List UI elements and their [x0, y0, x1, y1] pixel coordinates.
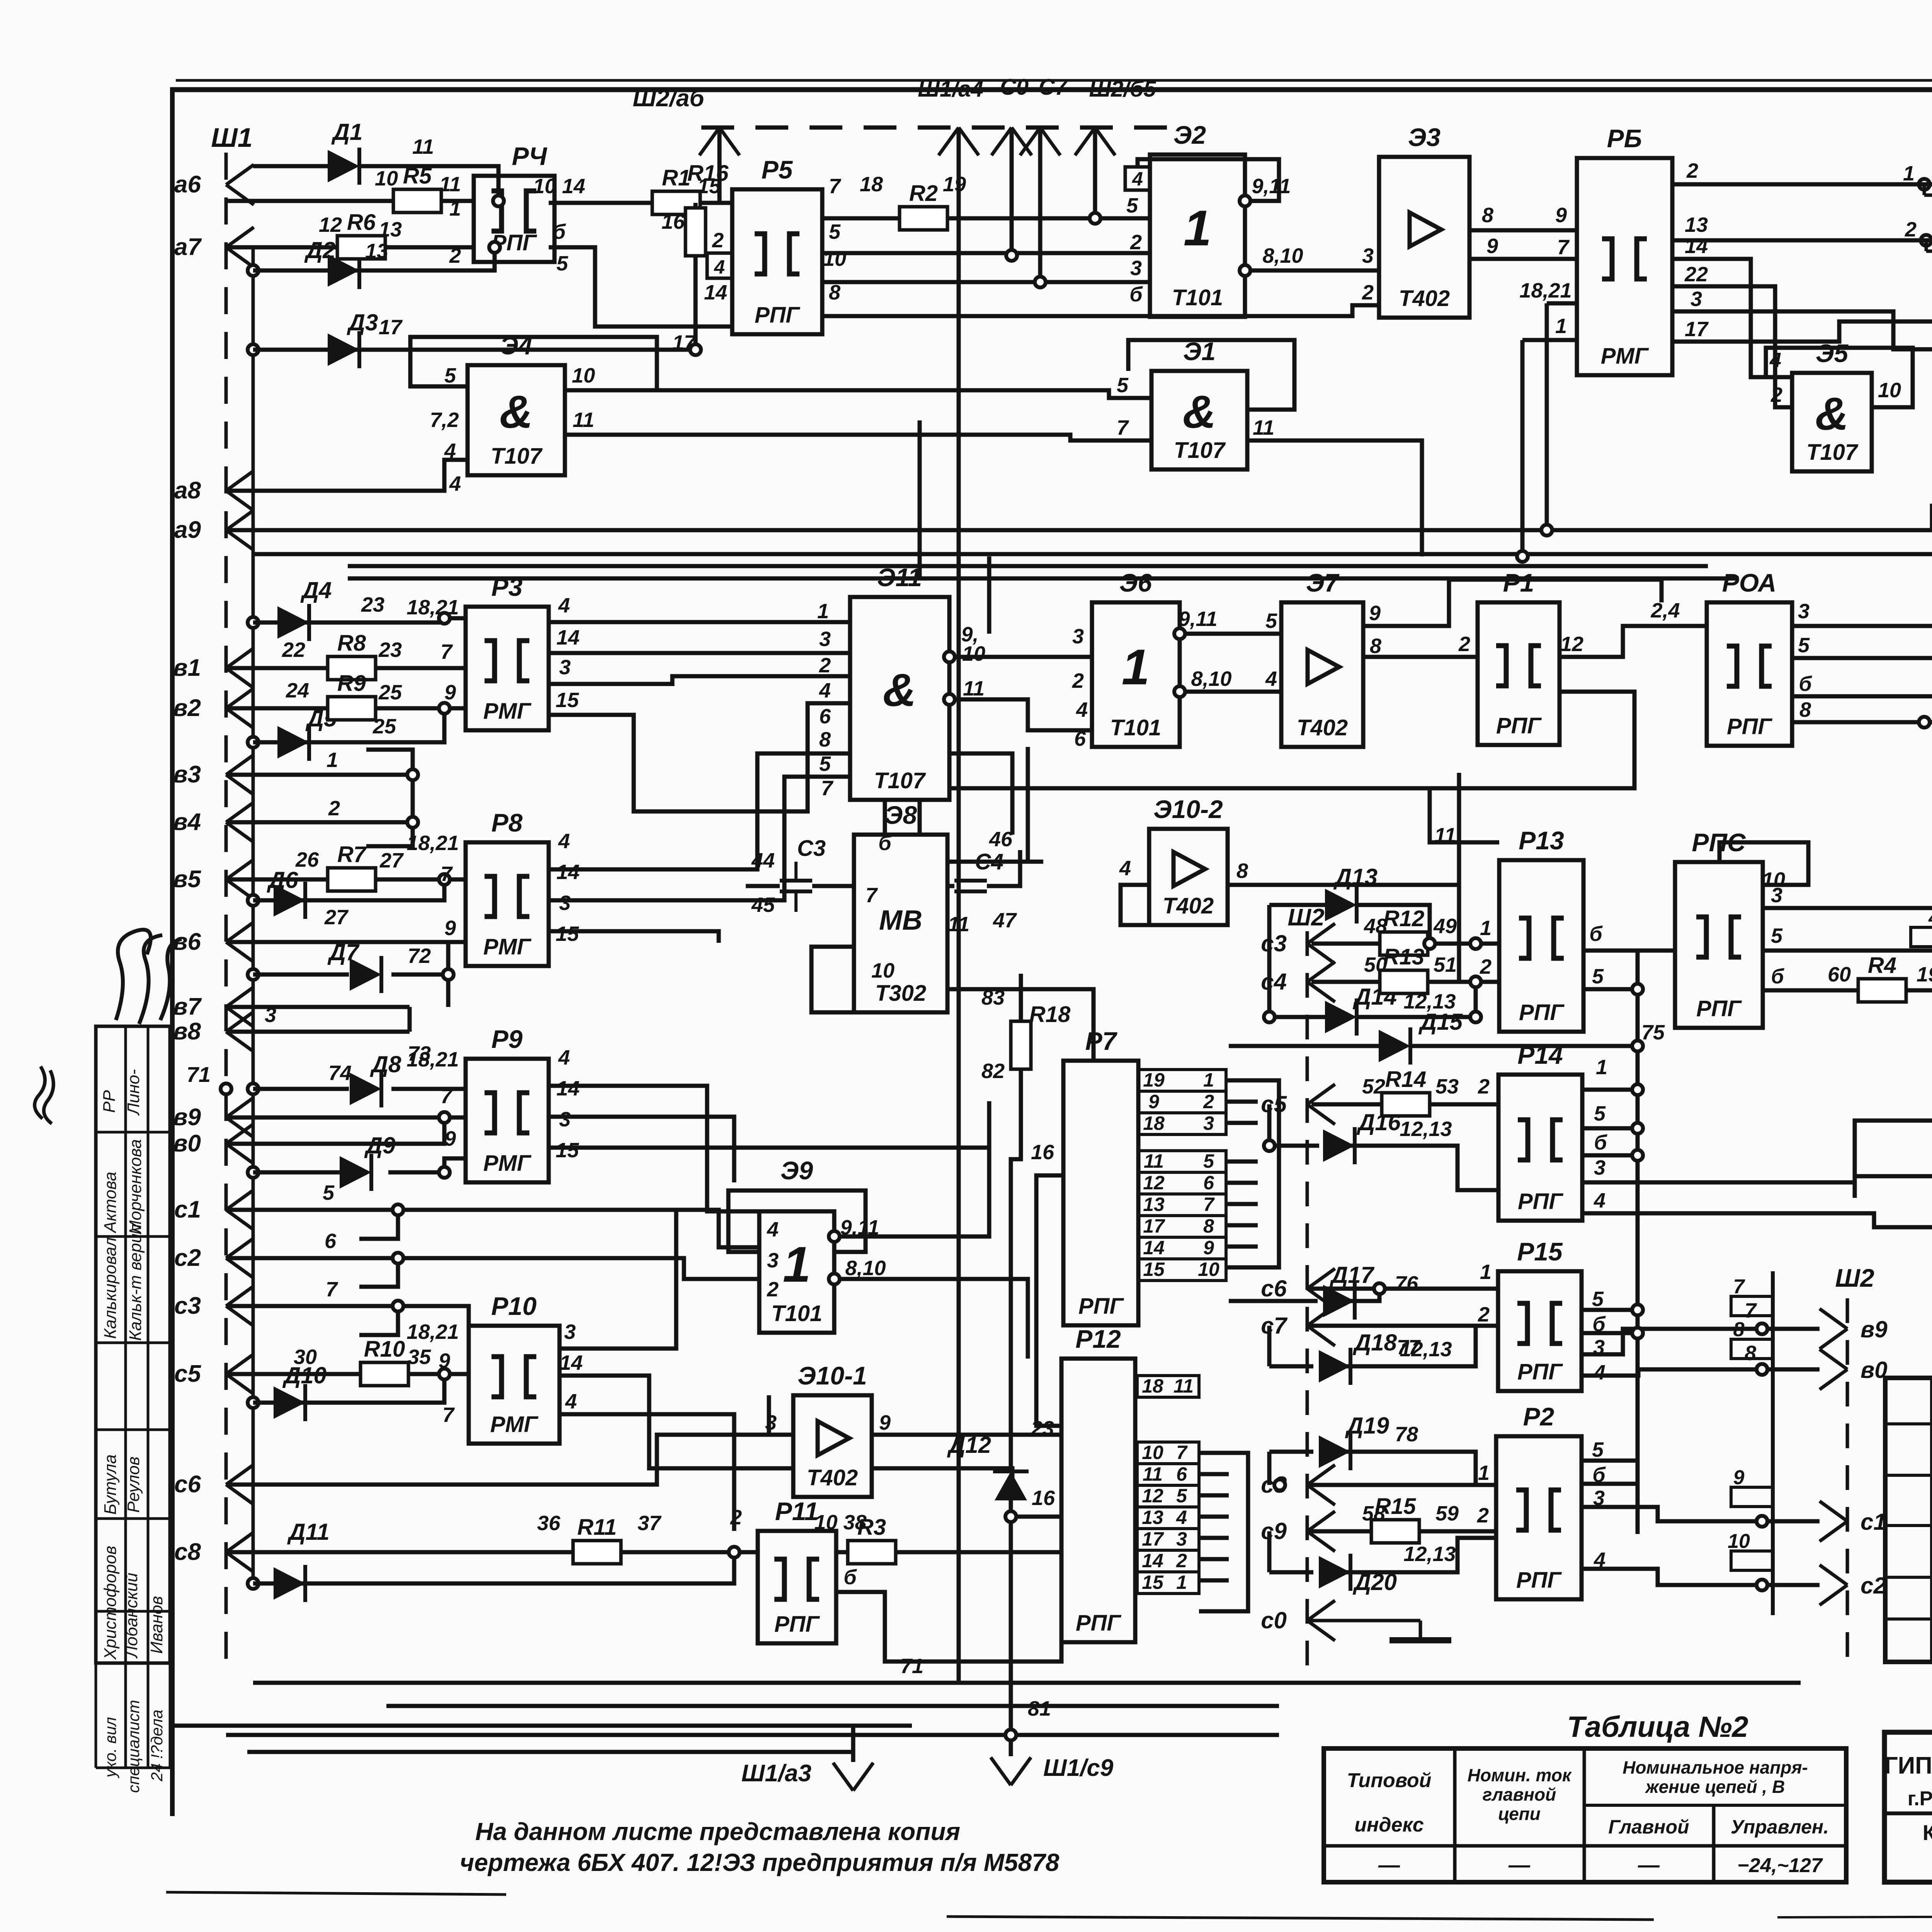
svg-text:58: 58: [1362, 1502, 1385, 1525]
svg-text:Главной: Главной: [1608, 1816, 1689, 1838]
svg-text:4: 4: [1265, 667, 1277, 690]
svg-text:1: 1: [449, 197, 461, 220]
svg-text:РПГ: РПГ: [1076, 1611, 1121, 1636]
svg-text:10: 10: [871, 959, 895, 982]
svg-text:РПГ: РПГ: [1516, 1568, 1562, 1593]
svg-text:R12: R12: [1383, 906, 1424, 931]
svg-text:б: б: [1594, 1131, 1607, 1154]
svg-text:12: 12: [1142, 1485, 1163, 1507]
svg-text:в7: в7: [173, 993, 202, 1020]
svg-text:1: 1: [1184, 200, 1211, 256]
svg-text:11: 11: [439, 173, 461, 196]
svg-text:—: —: [1378, 1852, 1400, 1877]
svg-text:1: 1: [1596, 1056, 1607, 1079]
svg-text:6: 6: [325, 1230, 337, 1253]
svg-text:Э10-1: Э10-1: [798, 1361, 867, 1390]
svg-text:Д4: Д4: [300, 577, 332, 603]
svg-text:77: 77: [1397, 1336, 1421, 1359]
svg-text:4: 4: [558, 594, 570, 617]
svg-text:&: &: [1183, 386, 1216, 438]
svg-text:Д2: Д2: [304, 237, 336, 263]
svg-text:7: 7: [1203, 1194, 1215, 1215]
svg-text:с0: с0: [1261, 1607, 1287, 1633]
svg-text:8,10: 8,10: [1262, 244, 1303, 267]
svg-text:7: 7: [821, 777, 834, 800]
svg-text:5: 5: [1592, 965, 1604, 988]
svg-text:3: 3: [1593, 1486, 1605, 1510]
svg-text:с6: с6: [174, 1471, 201, 1498]
svg-text:18,21: 18,21: [406, 832, 459, 855]
svg-text:48: 48: [1364, 915, 1387, 938]
svg-text:2: 2: [1905, 218, 1917, 241]
svg-text:Р13: Р13: [1519, 826, 1564, 855]
svg-text:Номинальное напря-: Номинальное напря-: [1622, 1757, 1808, 1777]
svg-text:2: 2: [1072, 669, 1084, 692]
svg-text:в4: в4: [173, 809, 201, 835]
svg-text:2: 2: [1478, 1303, 1490, 1326]
svg-text:Лино-: Лино-: [124, 1069, 143, 1116]
svg-text:специалист: специалист: [124, 1700, 143, 1793]
svg-text:РБ: РБ: [1607, 124, 1642, 153]
svg-text:74: 74: [328, 1061, 352, 1085]
svg-text:2: 2: [1203, 1091, 1214, 1112]
svg-text:13: 13: [1142, 1507, 1163, 1528]
svg-text:4: 4: [1132, 168, 1143, 190]
svg-text:5: 5: [1592, 1287, 1604, 1311]
svg-text:1: 1: [1555, 315, 1567, 338]
svg-text:с8: с8: [174, 1539, 201, 1565]
svg-text:1: 1: [1480, 917, 1492, 940]
svg-text:с7: с7: [1261, 1313, 1287, 1338]
svg-text:3: 3: [1072, 625, 1084, 648]
svg-text:3: 3: [1798, 600, 1810, 623]
svg-text:11: 11: [573, 408, 594, 432]
svg-text:10: 10: [1762, 868, 1785, 891]
svg-text:с3: с3: [1261, 930, 1287, 956]
svg-text:Э8: Э8: [884, 801, 917, 829]
svg-text:Д17: Д17: [1329, 1262, 1375, 1288]
svg-text:Ш2/аб: Ш2/аб: [633, 85, 705, 112]
svg-text:78: 78: [1395, 1423, 1418, 1446]
svg-text:б: б: [1771, 965, 1784, 988]
svg-text:11: 11: [1434, 824, 1456, 847]
svg-text:14: 14: [560, 1351, 583, 1374]
svg-text:с9: с9: [1261, 1518, 1287, 1544]
svg-text:Обознач.: Обознач.: [1930, 1396, 1932, 1419]
svg-text:13: 13: [365, 240, 388, 263]
svg-text:11: 11: [963, 677, 985, 700]
svg-text:в9: в9: [173, 1104, 201, 1131]
svg-text:18: 18: [1142, 1375, 1163, 1397]
svg-text:9,11: 9,11: [1252, 175, 1291, 198]
svg-text:РПГ: РПГ: [1518, 1189, 1563, 1214]
svg-text:5: 5: [819, 752, 831, 776]
svg-text:а6: а6: [174, 171, 201, 198]
svg-text:Т101: Т101: [771, 1301, 822, 1326]
svg-text:7: 7: [326, 1278, 338, 1301]
svg-text:15: 15: [556, 1139, 579, 1162]
svg-text:30: 30: [294, 1345, 317, 1369]
svg-text:2: 2: [328, 797, 340, 820]
svg-text:3: 3: [767, 1249, 779, 1272]
svg-text:с1: с1: [1861, 1509, 1886, 1535]
svg-text:19: 19: [943, 173, 966, 196]
svg-text:Христофоров: Христофоров: [101, 1546, 120, 1660]
svg-text:—: —: [1508, 1852, 1531, 1877]
svg-text:17: 17: [1142, 1528, 1164, 1550]
svg-text:25: 25: [372, 715, 396, 738]
svg-text:17: 17: [379, 316, 403, 339]
svg-text:Иванов: Иванов: [147, 1596, 166, 1654]
svg-text:Д8: Д8: [370, 1051, 401, 1077]
svg-text:в9: в9: [1861, 1316, 1888, 1342]
svg-text:R1: R1: [662, 165, 690, 190]
svg-text:2: 2: [819, 654, 831, 677]
svg-text:РПГ: РПГ: [774, 1612, 820, 1637]
svg-text:13: 13: [379, 218, 402, 241]
svg-text:2: 2: [1477, 1504, 1489, 1527]
svg-text:2: 2: [712, 229, 724, 252]
svg-text:3: 3: [1130, 257, 1142, 280]
svg-text:11: 11: [1143, 1463, 1163, 1485]
svg-text:&: &: [883, 664, 917, 716]
svg-text:Бутула: Бутула: [101, 1454, 120, 1515]
svg-text:2: 2: [1458, 633, 1470, 656]
svg-text:уко. вил: уко. вил: [101, 1717, 119, 1779]
svg-text:14: 14: [1142, 1550, 1163, 1571]
svg-text:4: 4: [558, 1046, 570, 1069]
svg-text:5: 5: [1117, 374, 1129, 397]
svg-text:14: 14: [1143, 1237, 1165, 1259]
svg-text:27: 27: [379, 849, 404, 872]
svg-text:5: 5: [1265, 609, 1277, 633]
svg-text:1: 1: [1176, 1571, 1187, 1593]
svg-text:Э9: Э9: [781, 1156, 813, 1185]
svg-text:83: 83: [981, 986, 1005, 1009]
svg-text:4: 4: [1119, 857, 1131, 880]
svg-text:Р15: Р15: [1517, 1237, 1563, 1266]
svg-text:10: 10: [962, 642, 985, 665]
svg-text:10: 10: [1878, 379, 1901, 402]
svg-text:49: 49: [1433, 915, 1457, 938]
svg-text:3: 3: [559, 891, 571, 915]
svg-text:13: 13: [1685, 213, 1708, 236]
svg-text:РПГ: РПГ: [1519, 1000, 1565, 1025]
svg-text:в3: в3: [173, 761, 201, 788]
svg-text:14: 14: [704, 281, 727, 304]
svg-text:3: 3: [1594, 1156, 1605, 1179]
svg-text:КОМПРЕССОРНАЯ: КОМПРЕССОРНАЯ: [1923, 1820, 1932, 1845]
svg-text:8: 8: [829, 281, 840, 304]
svg-text:18: 18: [860, 173, 883, 196]
svg-text:5: 5: [444, 364, 456, 387]
svg-text:37: 37: [638, 1512, 662, 1535]
svg-text:1: 1: [1480, 1260, 1492, 1284]
svg-text:с6: с6: [1261, 1276, 1287, 1301]
svg-text:а8: а8: [174, 477, 201, 504]
svg-text:4: 4: [1594, 1361, 1605, 1384]
svg-text:Р1: Р1: [1503, 568, 1534, 597]
svg-text:4: 4: [558, 830, 570, 853]
svg-text:&: &: [500, 386, 533, 438]
svg-text:7: 7: [442, 1403, 455, 1427]
svg-text:18,21: 18,21: [406, 1048, 459, 1071]
svg-text:8,10: 8,10: [1191, 667, 1231, 690]
svg-text:Т402: Т402: [1399, 286, 1450, 311]
svg-text:18,21: 18,21: [406, 596, 459, 619]
svg-text:8: 8: [1203, 1215, 1214, 1237]
svg-text:Кальк-т верил: Кальк-т верил: [126, 1224, 145, 1341]
svg-text:82: 82: [981, 1060, 1005, 1083]
svg-text:С7: С7: [1039, 75, 1068, 100]
svg-text:1: 1: [1203, 1069, 1214, 1091]
svg-text:9: 9: [444, 681, 456, 704]
svg-text:19: 19: [1143, 1069, 1165, 1091]
svg-text:—: —: [1638, 1852, 1660, 1877]
svg-text:9: 9: [1369, 602, 1381, 625]
svg-text:9: 9: [1733, 1466, 1745, 1489]
svg-text:25: 25: [378, 681, 402, 704]
svg-text:Ш1: Ш1: [211, 122, 252, 153]
svg-text:ГИПРОСТРОЙДОРМАШ: ГИПРОСТРОЙДОРМАШ: [1884, 1752, 1932, 1779]
svg-text:Э6: Э6: [1119, 568, 1152, 597]
svg-text:в1: в1: [173, 655, 201, 681]
svg-text:Р5: Р5: [762, 155, 793, 184]
svg-text:2: 2: [1362, 281, 1374, 304]
svg-text:15: 15: [697, 175, 721, 198]
svg-text:Типовой: Типовой: [1347, 1769, 1432, 1792]
svg-text:Э10-2: Э10-2: [1153, 795, 1223, 823]
svg-text:Ш2: Ш2: [1287, 904, 1324, 931]
svg-text:75: 75: [1641, 1021, 1665, 1044]
svg-text:Актова: Актова: [101, 1172, 120, 1234]
svg-text:3: 3: [1362, 244, 1374, 267]
svg-text:17: 17: [672, 331, 697, 354]
svg-text:27: 27: [324, 906, 349, 929]
svg-text:Номин. ток: Номин. ток: [1468, 1765, 1572, 1785]
svg-text:в8: в8: [173, 1018, 201, 1045]
svg-text:с1: с1: [174, 1196, 201, 1223]
svg-text:5: 5: [1176, 1485, 1187, 1507]
svg-text:8: 8: [1236, 859, 1248, 883]
svg-text:46: 46: [989, 828, 1013, 851]
svg-text:45: 45: [751, 893, 775, 917]
svg-text:б: б: [553, 220, 566, 243]
svg-text:4: 4: [444, 439, 456, 463]
svg-text:9: 9: [1203, 1237, 1214, 1259]
svg-text:36: 36: [537, 1512, 561, 1535]
svg-text:7: 7: [1733, 1276, 1745, 1298]
svg-text:35: 35: [408, 1345, 431, 1369]
svg-text:жение цепей , В: жение цепей , В: [1645, 1777, 1785, 1797]
svg-text:Т101: Т101: [1172, 285, 1223, 310]
svg-text:14: 14: [556, 861, 580, 884]
svg-text:Т302: Т302: [875, 981, 926, 1006]
svg-text:23: 23: [1031, 1417, 1054, 1440]
svg-text:7: 7: [829, 175, 842, 198]
svg-text:12: 12: [1143, 1172, 1165, 1194]
svg-text:−24,~127: −24,~127: [1737, 1854, 1823, 1877]
svg-text:б: б: [1129, 283, 1143, 306]
svg-text:Д11: Д11: [287, 1519, 330, 1545]
svg-text:11: 11: [948, 913, 969, 936]
svg-text:5: 5: [1771, 924, 1783, 947]
svg-text:Р12: Р12: [1075, 1325, 1121, 1353]
svg-text:Управлен.: Управлен.: [1731, 1816, 1829, 1838]
svg-text:Лобанский: Лобанский: [122, 1573, 141, 1659]
svg-text:16: 16: [662, 210, 685, 233]
svg-text:22: 22: [1684, 263, 1708, 286]
svg-text:4: 4: [1594, 1548, 1605, 1571]
svg-text:12: 12: [319, 213, 342, 236]
svg-text:Т107: Т107: [491, 444, 543, 469]
svg-text:4: 4: [767, 1218, 779, 1241]
svg-text:а9: а9: [174, 517, 201, 543]
svg-text:Э2: Э2: [1173, 121, 1206, 149]
svg-text:3: 3: [559, 1108, 571, 1131]
svg-text:15: 15: [1142, 1571, 1164, 1593]
svg-text:1: 1: [817, 600, 829, 623]
svg-text:16: 16: [1032, 1486, 1055, 1510]
svg-text:РПГ: РПГ: [1696, 996, 1742, 1021]
svg-text:3: 3: [819, 628, 831, 651]
svg-text:Т107: Т107: [1174, 438, 1226, 463]
svg-text:5: 5: [1203, 1150, 1214, 1172]
svg-text:2: 2: [1770, 383, 1782, 406]
svg-text:Таблица №2: Таблица №2: [1567, 1711, 1748, 1743]
svg-text:9,11: 9,11: [840, 1216, 879, 1239]
svg-text:2: 2: [1480, 955, 1492, 978]
svg-text:9,11: 9,11: [1178, 607, 1217, 631]
svg-text:РМГ: РМГ: [483, 699, 532, 724]
svg-text:71: 71: [187, 1062, 211, 1087]
svg-text:11: 11: [1144, 1150, 1164, 1172]
svg-text:9: 9: [444, 1127, 456, 1150]
svg-text:2,4: 2,4: [1650, 599, 1680, 622]
svg-text:10: 10: [823, 247, 846, 270]
svg-text:71: 71: [900, 1655, 923, 1678]
svg-text:17: 17: [1143, 1215, 1165, 1237]
svg-text:14: 14: [556, 1077, 580, 1100]
svg-text:8: 8: [819, 728, 831, 751]
svg-text:РМГ: РМГ: [490, 1412, 539, 1437]
svg-text:3: 3: [564, 1320, 576, 1344]
svg-text:9: 9: [879, 1411, 891, 1434]
svg-text:РР: РР: [100, 1090, 119, 1113]
svg-text:7: 7: [1117, 416, 1129, 439]
svg-text:60: 60: [1828, 963, 1851, 986]
svg-text:2: 2: [1176, 1550, 1187, 1571]
svg-text:РПГ: РПГ: [1517, 1359, 1563, 1384]
svg-text:9: 9: [444, 917, 456, 940]
svg-text:7: 7: [1557, 236, 1570, 259]
svg-text:2: 2: [449, 244, 461, 267]
svg-text:Э3: Э3: [1408, 123, 1440, 151]
svg-text:с2: с2: [174, 1245, 201, 1271]
svg-text:Т107: Т107: [874, 768, 926, 793]
svg-text:R18: R18: [1029, 1002, 1071, 1027]
svg-text:в2: в2: [173, 695, 201, 721]
svg-text:7: 7: [1176, 1442, 1188, 1463]
svg-text:9: 9: [1486, 235, 1498, 258]
svg-text:4: 4: [1076, 698, 1088, 721]
svg-text:с5: с5: [1261, 1091, 1287, 1117]
svg-text:РПГ: РПГ: [1078, 1294, 1124, 1319]
svg-text:РПГ: РПГ: [1496, 713, 1542, 738]
svg-text:5: 5: [1798, 634, 1810, 657]
svg-text:5: 5: [323, 1181, 335, 1204]
svg-text:Калькировал: Калькировал: [101, 1237, 120, 1339]
svg-text:24 !?дела: 24 !?дела: [148, 1709, 166, 1782]
svg-text:59: 59: [1435, 1502, 1459, 1525]
svg-text:24: 24: [286, 679, 309, 702]
svg-text:51: 51: [1434, 953, 1457, 976]
svg-text:14: 14: [556, 626, 580, 649]
svg-text:Р11: Р11: [775, 1497, 819, 1526]
svg-text:3: 3: [559, 656, 571, 679]
svg-text:5: 5: [1592, 1438, 1604, 1461]
svg-text:R8: R8: [337, 631, 366, 656]
svg-text:С0: С0: [1000, 75, 1029, 100]
svg-text:Р10: Р10: [491, 1292, 537, 1320]
svg-text:1: 1: [1122, 639, 1150, 695]
svg-text:чертежа 6БХ 407. 12!ЭЗ: чертежа 6БХ 407. 12!ЭЗ предприятия п/я М…: [460, 1849, 1060, 1876]
svg-text:23: 23: [378, 638, 402, 662]
svg-text:5: 5: [1126, 194, 1138, 217]
svg-text:б: б: [1592, 1463, 1606, 1486]
svg-text:4: 4: [1594, 1189, 1605, 1212]
svg-text:8: 8: [1799, 698, 1811, 721]
svg-text:10: 10: [1198, 1259, 1219, 1280]
svg-text:4: 4: [565, 1390, 577, 1413]
svg-text:Д1: Д1: [331, 119, 363, 145]
svg-text:4: 4: [1769, 349, 1781, 372]
svg-text:R14: R14: [1385, 1067, 1426, 1092]
svg-text:6: 6: [1203, 1172, 1214, 1194]
svg-text:7: 7: [866, 884, 878, 907]
svg-text:9: 9: [439, 1349, 450, 1372]
svg-text:На данном листе предста: На данном листе представлена копия: [475, 1818, 960, 1845]
svg-text:цепи: цепи: [1498, 1804, 1541, 1824]
svg-text:1: 1: [783, 1236, 811, 1293]
svg-text:10 14: 10 14: [533, 175, 585, 198]
svg-text:Т402: Т402: [807, 1465, 858, 1490]
svg-text:б: б: [878, 832, 892, 855]
svg-text:1: 1: [1478, 1461, 1490, 1485]
svg-text:7: 7: [440, 640, 453, 663]
svg-text:Р9: Р9: [492, 1025, 523, 1053]
svg-text:5: 5: [1594, 1102, 1606, 1125]
svg-text:18,21: 18,21: [406, 1320, 459, 1344]
svg-text:12,13: 12,13: [1400, 1117, 1452, 1141]
svg-text:53: 53: [1435, 1075, 1459, 1098]
svg-text:3: 3: [1690, 287, 1702, 311]
svg-text:12,13: 12,13: [1403, 990, 1456, 1013]
svg-text:б: б: [1799, 672, 1812, 696]
svg-text:10: 10: [1142, 1442, 1163, 1463]
svg-text:10: 10: [1728, 1530, 1750, 1553]
svg-text:Э7: Э7: [1306, 568, 1340, 597]
svg-text:23: 23: [361, 593, 384, 616]
svg-text:R10: R10: [364, 1337, 405, 1362]
svg-text:R7: R7: [337, 842, 367, 867]
svg-text:б: б: [844, 1566, 857, 1589]
svg-text:R13: R13: [1383, 944, 1424, 969]
svg-text:R6: R6: [347, 210, 376, 235]
svg-text:б: б: [1589, 922, 1603, 946]
svg-text:Т107: Т107: [1806, 440, 1859, 465]
svg-text:12,13: 12,13: [1403, 1543, 1456, 1566]
